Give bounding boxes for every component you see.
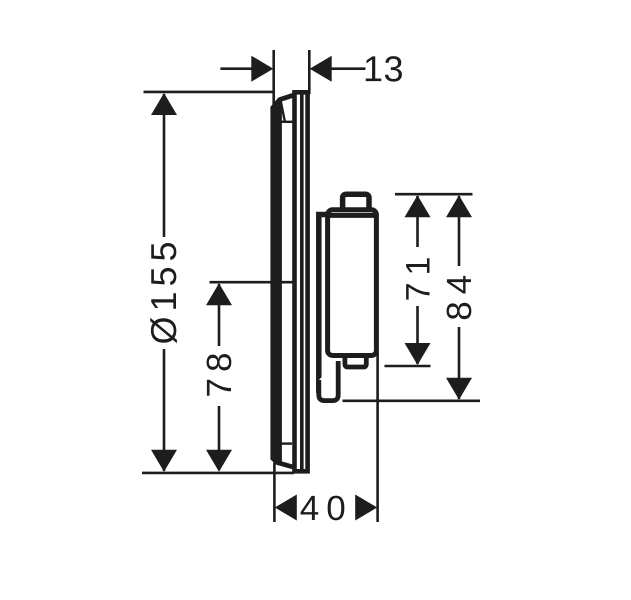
tick line 71/84 top reference — [395, 193, 473, 196]
arrowhead 84 up — [446, 195, 472, 217]
tick line 78 top reference — [210, 281, 301, 284]
arrowhead 71 up — [405, 195, 431, 217]
escutcheon plate inner line — [300, 94, 304, 469]
leader line 13 left — [220, 67, 252, 70]
escutcheon rim curve line top — [281, 100, 285, 121]
dimension line 84 — [458, 196, 461, 399]
tick line 84 bottom reference — [343, 399, 481, 402]
tick line top of plate (O155 top reference) — [144, 91, 275, 94]
leader line 13 right — [331, 67, 366, 70]
arrowhead 78 down — [206, 450, 232, 472]
extension line 40 right — [376, 352, 379, 522]
arrowhead 40 left (points left) — [275, 495, 297, 521]
arrowhead 84 down — [446, 378, 472, 400]
extension line 40 left — [273, 463, 276, 523]
svg-text:40: 40 — [300, 489, 353, 528]
dimension line 78 — [218, 284, 221, 470]
arrowhead O155 down — [151, 450, 177, 472]
svg-text:13: 13 — [363, 48, 404, 89]
escutcheon groove line top — [280, 121, 295, 123]
escutcheon groove line bottom — [280, 442, 292, 444]
dimension line 71 — [416, 196, 419, 364]
valve body inner top line — [330, 213, 374, 218]
valve body (cartridge housing) — [328, 210, 377, 356]
escutcheon rim inner edge — [277, 101, 282, 462]
arrowhead 13 left (points right) — [251, 56, 273, 82]
tick line 71 bottom reference — [385, 365, 431, 368]
arrowhead 78 up — [206, 283, 232, 305]
svg-text:Ø155: Ø155 — [143, 236, 184, 344]
escutcheon rim fill — [275, 104, 278, 461]
lower outlet box — [319, 361, 338, 401]
extension line 13 right — [308, 50, 311, 94]
svg-text:71: 71 — [400, 250, 438, 302]
escutcheon rim outline — [273, 95, 293, 467]
svg-text:84: 84 — [440, 268, 479, 321]
escutcheon plate — [295, 92, 308, 471]
valve body top tab — [343, 194, 369, 213]
svg-text:78: 78 — [200, 347, 239, 398]
arrowhead O155 up — [151, 93, 177, 115]
arrowhead 71 down — [405, 343, 431, 365]
flange connector left edge — [319, 215, 330, 394]
extension line 13 left — [272, 50, 275, 106]
arrowhead 40 right (points right) — [355, 495, 377, 521]
tick line bottom of plate (O155 / 78 bottom reference) — [142, 472, 294, 475]
valve body bottom tab — [345, 354, 366, 367]
dimension line O155 — [163, 94, 166, 471]
arrowhead 13 right (points left) — [310, 56, 332, 82]
